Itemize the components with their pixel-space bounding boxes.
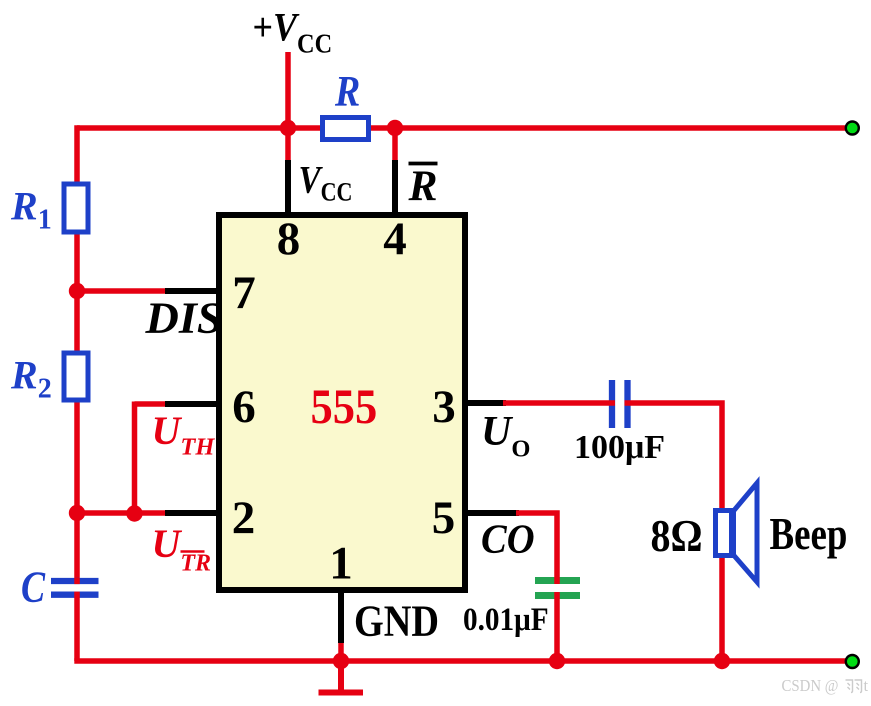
svg-text:GND: GND [354,596,439,645]
svg-text:R: R [334,67,360,115]
black pin stub 3 [465,400,506,406]
junction dot speaker / bottom rail [714,653,730,669]
svg-text:CSDN @: CSDN @ [782,677,839,695]
wire pin6 horizontal red segment [135,401,169,407]
wire 100uF to speaker top corner [625,403,723,512]
resistor R (top) [323,118,369,140]
wire pin5 red segment [516,513,557,584]
black pin stub 4 [392,160,398,213]
svg-text:t: t [864,676,869,695]
svg-text:3: 3 [432,381,456,433]
wire 0.01uF to bottom rail [554,592,560,661]
resistor R1 [64,184,88,232]
IC label 555 [311,380,378,435]
speaker impedance label 8 ohm [651,512,703,562]
wire pin7 red segment [77,288,168,294]
label R-bar (pin 4) [408,162,438,210]
resistor R2 [64,353,88,400]
wire pin6 vertical red [132,402,138,515]
wire left rail upper (corner to C top plate) [74,125,80,584]
svg-text:1: 1 [329,538,353,590]
svg-text:6: 6 [232,381,256,433]
wire top rail left of R [77,125,322,131]
junction dot pin4 / top rail [387,120,403,136]
black pin stub 1 [338,590,344,643]
label +Vcc [253,6,333,59]
label CO (pin 5) [481,515,535,562]
label U_TR-bar (pin 2) [152,521,212,577]
wire bottom rail [74,658,852,664]
svg-text:Beep: Beep [770,509,848,559]
capacitor C plates [51,581,99,595]
capacitor 0.01uF plates (green) [535,581,580,596]
svg-text:C: C [21,562,46,611]
svg-text:R: R [408,162,438,210]
junction dot 0.01uF / bottom rail [549,653,565,669]
black pin stub 7 [165,288,219,294]
black pin stub 6 [165,401,219,407]
junction dot Vcc / top rail [280,120,296,136]
junction dot pin1 / bottom rail [333,653,349,669]
speaker label Beep [770,509,848,559]
capacitor 0.01uF label [463,601,549,638]
ground symbol [319,660,364,693]
wire pin2 red segment [77,510,168,516]
svg-text:555: 555 [311,380,378,435]
capacitor C label [21,562,46,611]
wire pin4 red stub [392,128,398,163]
terminal top right [846,122,859,135]
svg-text:8: 8 [277,213,301,265]
svg-text:DIS: DIS [144,293,222,342]
speaker LS1 horn [734,483,758,582]
label Vcc (pin 8) [299,158,353,207]
junction dot pin6 / pin2 [126,505,142,521]
wire pin8 red stub [285,128,291,163]
watermark CSDN [782,676,869,695]
black pin stub 2 [165,510,219,516]
svg-text:5: 5 [432,492,456,544]
resistor R label [334,67,360,115]
wire speaker to bottom rail [719,554,725,661]
wire pin3 red segment [503,400,615,406]
wire +Vcc drop to top rail [285,52,291,128]
svg-text:2: 2 [232,492,256,544]
IC 555 body U1 [219,215,465,590]
speaker LS1 driver [716,511,732,556]
svg-text:8Ω: 8Ω [651,512,703,562]
svg-text:4: 4 [383,213,407,265]
junction dot left rail / pin2 [69,505,85,521]
svg-text:100μF: 100μF [574,429,665,466]
wire top rail right of R [369,125,852,131]
wire pin1 red segment to ground [338,640,344,687]
terminal bottom right [846,655,859,668]
label GND (pin 1) [354,596,439,645]
wire left rail lower (C bottom plate to corner) [74,592,80,662]
label DIS (pin 7) [144,293,222,342]
svg-text:0.01μF: 0.01μF [463,601,549,638]
black pin stub 8 [285,160,291,213]
black pin stub 5 [465,510,519,516]
junction dot R1 / pin7 [69,283,85,299]
svg-text:CO: CO [481,515,535,562]
capacitor C wire overlay [74,578,80,598]
capacitor 100uF plates [612,380,628,428]
svg-text:7: 7 [232,267,256,319]
